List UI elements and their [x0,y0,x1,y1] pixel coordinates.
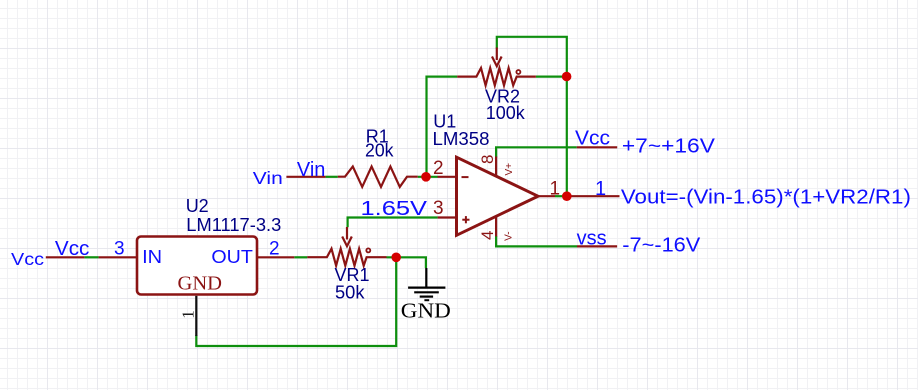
svg-text:IN: IN [142,246,162,267]
op-amp inverting input minus sign [462,176,469,178]
svg-text:GND: GND [178,273,223,294]
resistor R1 [338,167,418,187]
net port +7~+16V [622,136,716,158]
svg-text:Vcc: Vcc [11,249,44,269]
U2 pin name IN [142,246,162,267]
U2 GND pin stem [195,296,197,336]
net port -7~-16V [622,235,701,257]
op-amp non-inverting input plus sign [462,216,469,223]
svg-text:OUT: OUT [211,246,253,267]
potentiometer VR1 terminal circle [366,248,370,252]
ground symbol [408,268,445,300]
U2 pin number 2 [269,239,280,260]
net port Vcc (far left) [11,249,44,269]
regulator U2 box [137,237,257,295]
svg-text:LM358: LM358 [433,129,490,149]
svg-text:vss: vss [577,228,607,250]
svg-text:2: 2 [269,239,280,260]
op-amp pin name V+ (rotated) [504,163,515,176]
wire op-amp V- pin to vss rail [495,216,497,237]
op-amp pin number 2 [433,158,444,179]
svg-text:1.65V: 1.65V [361,197,428,220]
wire Vin label to R1 [326,176,338,178]
wire output junction to Vout port [571,195,620,197]
svg-text:Vout=-(Vin-1.65)*(1+VR2/R1): Vout=-(Vin-1.65)*(1+VR2/R1) [621,186,911,208]
svg-text:GND: GND [401,299,451,323]
junction dot at op-amp output [562,191,572,201]
wire VR2 right terminal to vertical rail [536,75,567,77]
wire VR1 junction down and around to U2 GND pin [196,257,396,346]
svg-text:Vin: Vin [253,168,283,188]
op-amp pin number 8 (rotated) [478,155,497,164]
U1 value LM358 [433,129,490,149]
junction dot at VR1 right [391,252,401,262]
junction dot at op-amp pin2 / R1 [421,172,431,182]
R1 reference designator [366,127,389,147]
svg-text:50k: 50k [335,282,366,302]
net port Vcc lead wire [46,256,85,258]
op-amp pin number 1 [550,179,561,200]
U2 GND pin number 1 (rotated) [179,310,198,319]
wire Vcc port to U2 IN [84,256,98,258]
op-amp pin number 3 [433,198,444,219]
svg-text:LM1117-3.3: LM1117-3.3 [186,215,281,235]
pin 3 stub of U2 IN [99,256,137,258]
net label 1 on output wire [595,178,606,200]
net label vss [577,228,607,250]
pin 2 stub of U2 OUT [257,256,294,258]
wire U2 OUT to VR1 [294,256,307,258]
R1 value 20k [365,141,394,161]
potentiometer VR1 body [307,249,386,266]
VR2 reference designator [485,87,520,107]
svg-text:2: 2 [433,158,444,179]
op-amp output pin 1 stub [538,195,555,197]
svg-text:Vin: Vin [297,159,326,181]
op-amp U1 triangle [457,157,539,235]
svg-text:Vcc: Vcc [55,238,90,260]
wire VR2 left terminal down to op-amp pin2 junction [427,77,458,177]
wire 1.65V net to op-amp pin3 and VR1 wiper [348,218,438,228]
svg-text:3: 3 [114,239,125,260]
svg-text:100k: 100k [486,103,526,123]
svg-text:-7~-16V: -7~-16V [622,235,701,257]
potentiometer VR2 wiper arrow [492,48,502,67]
wire VR1 right to GND symbol [387,257,426,268]
VR1 reference designator [335,265,370,285]
potentiometer VR2 body [457,68,536,85]
svg-text:1: 1 [595,178,606,200]
net label vss wire [577,245,617,247]
net label Vin wire [286,176,325,178]
potentiometer VR2 terminal circle [516,70,520,74]
svg-text:1: 1 [179,310,198,319]
wire op-amp output through junction [555,195,571,197]
VR2 value 100k [486,103,526,123]
wire op-amp V+ pin to Vcc rail [496,147,577,157]
wire R1 right lead to pin2 junction [418,176,438,178]
wire VR2 wiper top loop [497,37,567,75]
net port Vout equation [621,186,911,208]
svg-text:3: 3 [433,198,444,219]
potentiometer VR1 wiper arrow [342,227,352,246]
VR1 value 50k [335,282,366,302]
svg-text:V-: V- [503,231,514,240]
svg-text:+7~+16V: +7~+16V [622,136,716,158]
svg-text:8: 8 [478,155,497,164]
svg-text:4: 4 [478,230,497,239]
U2 pin name GND [178,273,223,294]
net port Vin [253,168,283,188]
svg-text:Vcc: Vcc [575,128,610,150]
net label Vin [297,159,326,181]
svg-text:20k: 20k [365,141,394,161]
svg-text:U2: U2 [186,196,209,216]
net label Vcc (top right) [575,128,610,150]
op-amp pin number 4 (rotated) [478,230,497,239]
svg-text:V+: V+ [504,163,515,176]
svg-text:1: 1 [550,179,561,200]
op-amp pin 3 stub [438,216,458,218]
ground label GND [401,299,451,323]
net label Vcc (left wire) [55,238,90,260]
U2 pin name OUT [211,246,253,267]
U2 reference designator [186,196,209,216]
wire vertical rail from VR2 junction down to output junction [566,77,568,197]
U1 reference designator [433,112,456,132]
U2 pin number 3 [114,239,125,260]
net label 1.65V [361,197,428,220]
op-amp pin name V- (rotated) [503,231,514,240]
op-amp pin 2 stub [438,176,458,178]
junction dot at VR2 right [562,72,572,82]
net label Vcc wire (top right) [577,146,618,148]
U2 value LM1117-3.3 [186,215,281,235]
